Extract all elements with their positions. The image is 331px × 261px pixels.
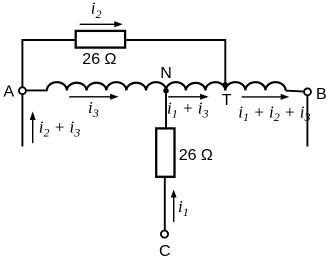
svg-text:C: C [159,243,171,260]
svg-text:T: T [222,92,232,109]
inductor coil N-T (3 turns) [166,82,225,90]
svg-text:A: A [4,83,15,100]
junction node N dot [163,88,169,94]
wire left stub below A [21,95,23,147]
terminal C circle [161,231,168,238]
wire from inductor to B [286,91,304,92]
wire right stub below B [306,95,308,146]
current arrow i1+i3 (N to T) [168,94,208,100]
resistor R1 26 ohm (top branch) [76,31,125,48]
current arrow i1+i2+i3 (T to B) [242,94,290,100]
current arrow i2+i3 (left, upward) [30,112,36,144]
wire from A to inductor [27,89,48,91]
terminal A circle [19,87,26,94]
wire top-left: from node A up and right to resistor R1 [22,40,74,87]
resistor R2 26 ohm (vertical middle branch) [156,128,174,176]
current arrow i3 (A to N) [69,94,118,100]
inductor coil A-N (6 turns) [47,82,166,90]
terminal B circle [304,88,311,95]
svg-text:B: B [316,86,327,103]
junction node T dot [222,82,228,88]
current arrow i2 (top) [80,21,123,27]
inductor coil T-B (3 turns) [225,82,285,90]
wire top-right: from resistor R1 right then down to node T [126,40,225,88]
svg-text:N: N [160,65,172,82]
wire node N stem down to resistor R2 [165,90,167,128]
current arrow i1 (upward, below R2) [171,190,177,223]
svg-text:26 Ω: 26 Ω [179,147,213,164]
svg-text:26 Ω: 26 Ω [82,51,116,68]
wire resistor R2 down to node C [164,178,166,231]
